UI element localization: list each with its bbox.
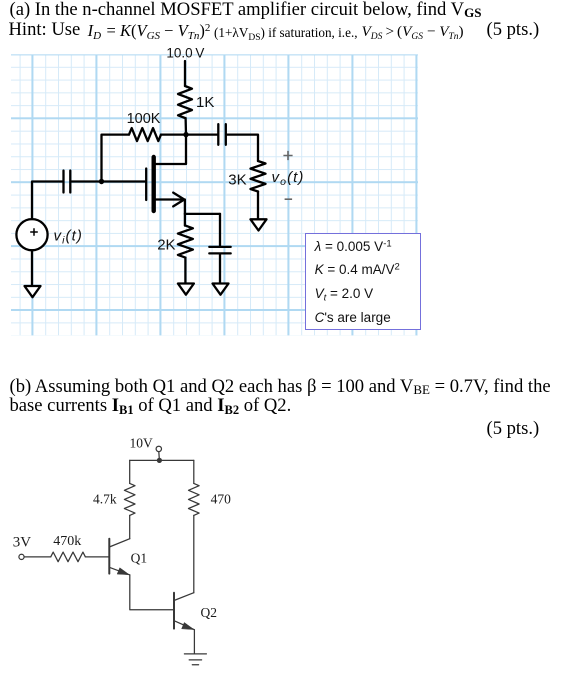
svg-text:Q2: Q2 xyxy=(201,605,218,620)
svg-text:1K: 1K xyxy=(196,94,214,111)
svg-text:470: 470 xyxy=(211,492,232,507)
svg-text:4.7k: 4.7k xyxy=(93,492,117,507)
svg-text:10.0 V: 10.0 V xyxy=(166,45,204,60)
svg-text:100K: 100K xyxy=(127,111,161,127)
svg-text:3K: 3K xyxy=(228,171,246,188)
svg-text:vo(t): vo(t) xyxy=(272,169,305,188)
svg-text:2K: 2K xyxy=(157,236,175,253)
svg-text:10V: 10V xyxy=(130,436,154,451)
svg-text:vi(t): vi(t) xyxy=(54,228,84,247)
svg-text:3V: 3V xyxy=(13,535,32,551)
svg-text:470k: 470k xyxy=(53,534,81,549)
svg-text:Q1: Q1 xyxy=(131,550,148,565)
